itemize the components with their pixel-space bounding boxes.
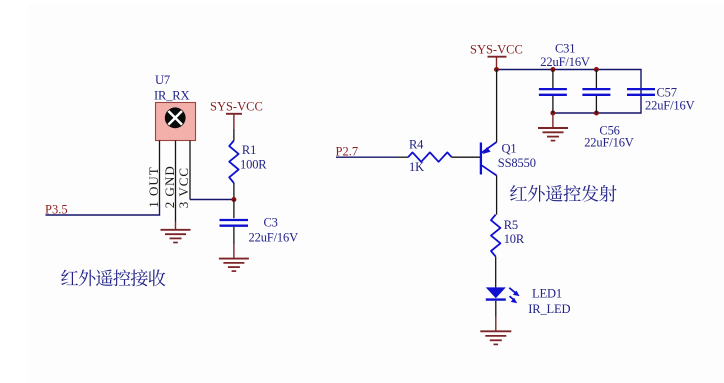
svg-text:IR_LED: IR_LED (528, 302, 570, 316)
photodiode receiver U7 body (156, 103, 196, 141)
svg-text:C31: C31 (555, 42, 575, 56)
caption 红外遥控接收 (61, 269, 165, 286)
wire R4 to Q1 base (452, 156, 480, 158)
svg-text:22uF/16V: 22uF/16V (645, 98, 695, 112)
svg-text:2 GND: 2 GND (162, 165, 177, 208)
svg-text:SS8550: SS8550 (498, 156, 536, 170)
wire power to R1 (233, 129, 235, 141)
caption 红外遥控发射 (510, 185, 617, 202)
svg-text:100R: 100R (240, 158, 267, 172)
LED1 emission arrow 2 (510, 296, 515, 300)
wire R5 to LED1 (495, 257, 497, 288)
svg-text:1 OUT: 1 OUT (146, 166, 161, 207)
wire top rail (497, 70, 642, 114)
wire P3.5 to pin1 (46, 205, 160, 215)
svg-text:22uF/16V: 22uF/16V (540, 55, 590, 69)
capacitor C57 (627, 88, 655, 90)
svg-text:R4: R4 (409, 138, 424, 152)
Q1 emitter arrow (PNP) (482, 147, 490, 154)
svg-text:IR_RX: IR_RX (154, 89, 189, 103)
junction node (231, 197, 236, 202)
transistor Q1 SS8550 (480, 143, 482, 175)
wire pin3 to junction (190, 199, 234, 201)
resistor R4 (408, 152, 452, 161)
junction node at power (494, 67, 499, 72)
svg-text:10R: 10R (504, 232, 525, 246)
wire LED1 to ground (495, 301, 497, 317)
wire P2.7 to R4 (336, 156, 397, 158)
wire SYS-VCC to Q1 emitter (496, 70, 498, 143)
resistor R5 (491, 215, 500, 257)
U7 pin 2 (GND) (175, 141, 177, 222)
capacitor C56 (595, 70, 597, 89)
U7 lens symbol (black circle with white X) (165, 107, 186, 128)
ground under LED1 (480, 330, 511, 332)
U7 pin 3 (VCC) (189, 141, 191, 200)
resistor R1 (229, 141, 238, 184)
svg-text:Q1: Q1 (502, 142, 517, 156)
svg-text:C3: C3 (264, 216, 278, 230)
wire R1 to junction (233, 183, 235, 200)
ground under C31 (552, 113, 554, 128)
ground under C3 (233, 245, 235, 259)
svg-text:22uF/16V: 22uF/16V (584, 136, 634, 150)
svg-text:R5: R5 (504, 218, 518, 232)
U7 pin 1 (OUT) (159, 141, 161, 206)
capacitor C31 (552, 70, 554, 89)
svg-text:1K: 1K (409, 160, 424, 174)
wire Q1 collector down (496, 176, 498, 215)
ground under U7 pin2 (175, 221, 177, 230)
capacitor C3 (233, 200, 235, 219)
svg-text:3 VCC: 3 VCC (176, 167, 191, 208)
svg-text:U7: U7 (155, 73, 170, 87)
svg-text:P2.7: P2.7 (336, 145, 359, 159)
svg-text:SYS-VCC: SYS-VCC (210, 100, 263, 114)
LED1 emission arrow 1 (509, 288, 516, 293)
svg-text:22uF/16V: 22uF/16V (249, 231, 299, 245)
svg-text:LED1: LED1 (532, 287, 562, 301)
LED1 cathode bar (486, 298, 506, 300)
svg-text:R1: R1 (242, 143, 256, 157)
LED1 diode triangle (486, 287, 506, 298)
svg-text:SYS-VCC: SYS-VCC (470, 43, 523, 57)
junction nodes on rails (550, 67, 555, 72)
